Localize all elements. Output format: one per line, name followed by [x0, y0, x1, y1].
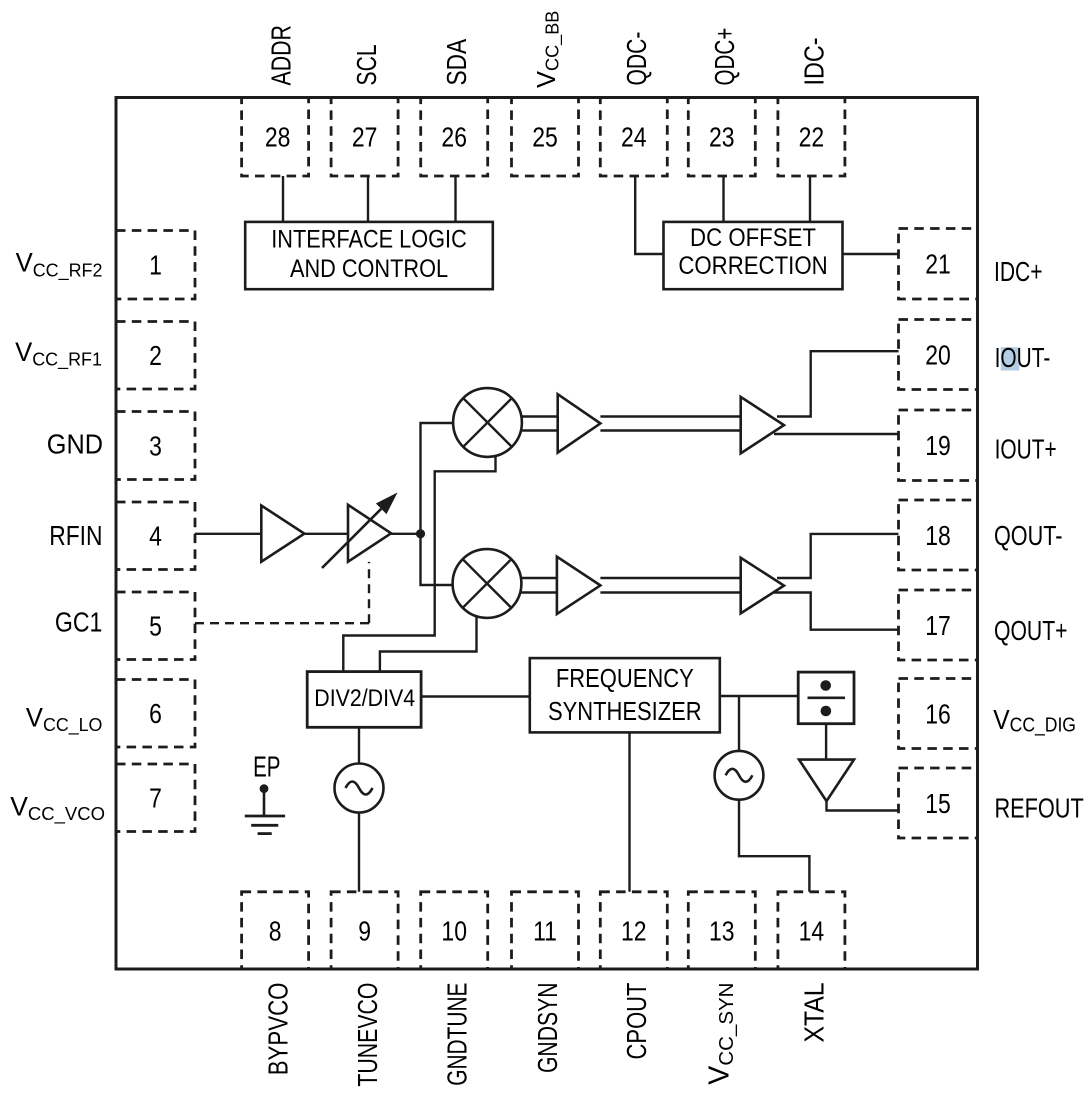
svg-text:23: 23 [709, 123, 735, 154]
svg-text:27: 27 [352, 123, 378, 154]
pin 22 box [778, 98, 845, 177]
wire U5 to refout buffer [825, 724, 827, 760]
block U2 DC OFFSET CORRECTION [664, 222, 843, 289]
svg-text:3: 3 [149, 431, 162, 462]
pin 23 box [688, 98, 755, 177]
svg-text:VCC_DIG: VCC_DIG [993, 703, 1076, 736]
pin 21 box [899, 229, 978, 300]
wire M1 to A3 double line bottom [522, 429, 558, 431]
wire pin27 to U1 [367, 176, 369, 222]
svg-text:18: 18 [925, 521, 951, 552]
svg-text:BYPVCO: BYPVCO [263, 983, 294, 1076]
wire mixer M1 LO from DIV2/DIV4 [343, 456, 495, 672]
svg-text:DIV2/DIV4: DIV2/DIV4 [314, 684, 415, 712]
wire A4 to A6 double line bottom [600, 591, 740, 593]
amplifier A4 Q-path [557, 557, 601, 614]
svg-text:VCC_VCO: VCC_VCO [10, 791, 105, 825]
wire A6 to pin17 QOUT+ [774, 593, 899, 630]
wire pin23 to U2 [722, 176, 724, 222]
svg-text:GND: GND [47, 429, 103, 460]
svg-text:7: 7 [149, 784, 162, 815]
svg-text:IOUT-: IOUT- [995, 343, 1051, 373]
svg-text:QDC-: QDC- [622, 32, 652, 86]
pin 3 box [116, 412, 195, 480]
pin 14 box [778, 892, 845, 969]
pin 6 box [116, 680, 195, 748]
wire RFIN pin4 to amp A1 [195, 533, 261, 535]
amplifier A6 Q output driver [741, 558, 784, 614]
svg-text:17: 17 [925, 611, 951, 642]
svg-text:11: 11 [533, 916, 557, 947]
pin 11 box [512, 892, 579, 969]
svg-text:10: 10 [441, 916, 467, 947]
svg-text:20: 20 [925, 340, 951, 371]
pin 16 box [899, 679, 978, 749]
pin 1 box [116, 231, 195, 300]
svg-text:16: 16 [925, 699, 951, 730]
pin 4 box [116, 502, 195, 570]
node RF split junction [416, 529, 425, 538]
svg-text:TUNEVCO: TUNEVCO [353, 983, 383, 1087]
block U3 DIV2/DIV4 [307, 672, 421, 728]
svg-text:2: 2 [149, 341, 162, 372]
svg-text:28: 28 [265, 123, 291, 154]
svg-text:VCC_LO: VCC_LO [26, 702, 103, 736]
svg-text:25: 25 [532, 123, 558, 154]
pin 24 box [600, 98, 667, 177]
wire VCO to pin9 TUNEVCO [358, 813, 360, 892]
wire XTAL osc tap [738, 696, 740, 751]
block U5 reference divider [798, 672, 854, 724]
wire pin28 to U1 [282, 176, 284, 222]
svg-text:REFOUT: REFOUT [995, 794, 1084, 824]
svg-text:EP: EP [253, 753, 280, 784]
wire M2 to A4 double line bottom [521, 591, 557, 593]
oscillator G2 crystal [715, 751, 764, 800]
svg-text:QDC+: QDC+ [710, 28, 741, 86]
wire pin24 to U2 left [635, 176, 663, 254]
svg-text:INTERFACE LOGIC: INTERFACE LOGIC [271, 225, 467, 253]
svg-text:SCL: SCL [353, 44, 383, 85]
pin 2 box [116, 322, 195, 390]
wire A4 to A6 double line top [600, 577, 740, 579]
svg-text:GNDTUNE: GNDTUNE [443, 983, 473, 1086]
svg-text:14: 14 [799, 916, 825, 947]
wire RF node up to mixer M1 [421, 423, 454, 534]
svg-text:CPOUT: CPOUT [622, 983, 653, 1060]
wire M2 to A4 double line top [521, 577, 557, 579]
svg-text:ADDR: ADDR [267, 25, 297, 85]
pin 15 box [899, 768, 978, 838]
amplifier A3 I-path [558, 394, 601, 452]
svg-text:12: 12 [621, 916, 647, 947]
EP pad dot [260, 784, 269, 793]
svg-text:CORRECTION: CORRECTION [678, 252, 827, 279]
amplifier A5 I output driver [741, 397, 784, 453]
ground symbol [263, 789, 266, 816]
svg-text:VCC_SYN: VCC_SYN [704, 983, 739, 1085]
svg-text:26: 26 [441, 123, 467, 154]
chip outline [116, 98, 978, 970]
wire RF node down to mixer M2 [421, 534, 453, 585]
wire A5 to pin20 IOUT- [777, 351, 899, 416]
svg-text:8: 8 [269, 916, 282, 947]
pin 26 box [421, 98, 488, 177]
svg-text:24: 24 [621, 123, 647, 154]
mixer M1 (I) [453, 388, 522, 457]
wire A6 to pin18 QOUT- [777, 534, 899, 578]
pin 7 box [116, 764, 195, 832]
svg-text:SYNTHESIZER: SYNTHESIZER [548, 698, 702, 727]
wire U3 to VCO oscillator [358, 727, 360, 763]
pin 13 box [688, 892, 755, 969]
svg-text:6: 6 [149, 699, 162, 730]
wire A3 to A5 double line top [600, 415, 740, 417]
svg-text:19: 19 [925, 431, 951, 462]
svg-text:QOUT-: QOUT- [994, 522, 1062, 552]
pin 28 box [242, 98, 309, 177]
svg-text:VCC_RF2: VCC_RF2 [16, 247, 103, 281]
wire A7 to pin15 REFOUT [827, 801, 899, 810]
block U4 FREQUENCY SYNTHESIZER [530, 658, 720, 732]
svg-text:15: 15 [925, 789, 951, 820]
pin 20 box [899, 320, 978, 390]
wire U4 to divider U5 [720, 695, 798, 697]
svg-text:13: 13 [709, 916, 735, 947]
block U1 INTERFACE LOGIC AND CONTROL [245, 222, 493, 289]
pin 12 box [600, 892, 667, 969]
wire U3 to frequency synthesizer [421, 695, 530, 697]
svg-text:VCC_RF1: VCC_RF1 [15, 337, 102, 371]
svg-text:GC1: GC1 [55, 608, 102, 638]
amplifier A7 REFOUT buffer (down) [799, 760, 854, 802]
mixer M2 (Q) [453, 549, 522, 618]
wire pin26 to U1 [454, 176, 456, 222]
pin 17 box [899, 590, 978, 660]
svg-text:21: 21 [925, 250, 951, 281]
pin 10 box [421, 892, 488, 969]
VGA arrow [322, 509, 381, 568]
wire U2 to pin21 IDC+ [843, 253, 899, 255]
svg-text:AND CONTROL: AND CONTROL [290, 255, 448, 283]
amplifier A2 variable gain [348, 505, 391, 562]
svg-text:IOUT+: IOUT+ [995, 435, 1057, 465]
svg-text:5: 5 [149, 612, 162, 643]
selection highlight on IOUT- [1001, 347, 1020, 370]
pin 18 box [899, 500, 978, 570]
svg-text:QOUT+: QOUT+ [994, 616, 1068, 646]
svg-text:IDC-: IDC- [800, 37, 830, 85]
pin 8 box [242, 892, 309, 969]
wire M1 to A3 double line top [522, 415, 558, 417]
svg-text:IDC+: IDC+ [994, 257, 1042, 287]
svg-text:GNDSYN: GNDSYN [534, 983, 564, 1074]
svg-text:VCC_BB: VCC_BB [533, 11, 564, 88]
pin 5 box [116, 592, 195, 660]
svg-text:22: 22 [799, 123, 825, 154]
wire GC1 dashed control pin5 to VGA [195, 622, 369, 624]
oscillator G1 VCO [335, 764, 384, 813]
svg-text:DC OFFSET: DC OFFSET [690, 224, 816, 251]
wire A2 to RF node [391, 533, 420, 535]
svg-text:SDA: SDA [442, 39, 473, 86]
svg-text:XTAL: XTAL [798, 983, 830, 1043]
svg-text:1: 1 [149, 251, 162, 282]
amplifier A1 RF [261, 506, 304, 562]
wire A1 to VGA A2 [304, 533, 348, 535]
svg-text:RFIN: RFIN [49, 521, 102, 551]
pin 25 box [512, 98, 579, 177]
svg-text:4: 4 [149, 522, 162, 553]
svg-text:FREQUENCY: FREQUENCY [556, 664, 694, 693]
pin 9 box [331, 892, 398, 969]
wire XTAL osc to pin14 XTAL [739, 800, 809, 892]
wire A5 to pin19 IOUT+ [774, 433, 899, 435]
wire A3 to A5 double line bottom [600, 429, 740, 431]
pin 27 box [331, 98, 398, 177]
wire mixer M2 LO from DIV2/DIV4 [380, 617, 477, 672]
wire pin22 to U2 [809, 176, 811, 222]
svg-text:9: 9 [358, 916, 371, 947]
pin 19 box [899, 410, 978, 481]
wire U4 to pin12 CPOUT [628, 732, 630, 891]
